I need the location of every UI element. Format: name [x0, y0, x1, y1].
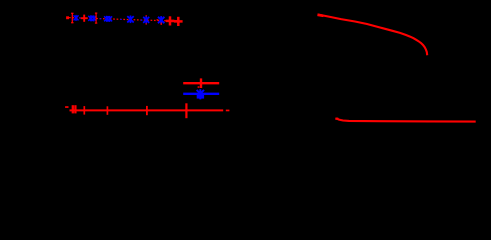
top-left series: red error bar at x=146.2 [145, 15, 147, 24]
right panel: bright start dot of lower branch [335, 118, 338, 120]
bottom-left series: detached left dash [65, 106, 68, 108]
bottom-left series: bold cap bar at x=72.8 [72, 105, 74, 113]
right panel: lower red branch [336, 118, 476, 121]
top-left data series: sparse blue dashes [79, 18, 162, 21]
top-left series: blue star marker at x=76 [74, 15, 79, 21]
top-left series: red error bar at x=72.3 [71, 13, 73, 22]
top-left series: small red marks over star at 161 [157, 20, 162, 25]
right panel: bold start dash of upper curve [318, 15, 324, 16]
bottom-left series: cap at x=107.4 [106, 106, 108, 115]
bottom-left series: main horizontal red line [70, 109, 224, 111]
legend entry 2: blue line [183, 93, 219, 95]
top-left series: bold blue star at x=130.5 [127, 16, 133, 24]
top-left series: bold red plus at x=178.3 [174, 17, 183, 26]
top-left series: thick red join segment [171, 20, 178, 22]
top-left series: bold red plus at x=170 [166, 16, 175, 25]
top-left series: red square marker P0 [66, 16, 69, 19]
bottom-left series: cap at x=84 [83, 106, 85, 115]
top-left series: blue star pair at x=90.8 and 93.8 [88, 15, 96, 21]
bottom-left series: bold cap bar at x=75.4 [74, 105, 76, 113]
legend: small red dot above blue marker [198, 86, 200, 88]
top-left series: blue star at x=146.2 [143, 16, 149, 23]
legend entry 1: red line [183, 82, 219, 84]
legend entry 2: blue star marker [197, 89, 204, 99]
legend entry 1: red plus marker [200, 78, 202, 88]
top-left series: red plus marker at x=84 [81, 15, 88, 22]
top-left series: bold blue star at x=161.2 [158, 16, 164, 24]
top-left series: blue star pair at x=106.6 and 109.6 [104, 16, 112, 22]
bottom-left series: detached right dash [226, 110, 230, 112]
legend entry 2: blue filled square marker [197, 94, 204, 99]
bottom-left series: cap at x=146.9 [146, 106, 148, 115]
top-left data series: red dashed trend line [69, 18, 181, 22]
top-left series: red error bar at x=96 [95, 13, 97, 23]
right panel: upper red curve (fold branch) [318, 14, 428, 55]
bottom-left series: tall cap at x=186.4 [185, 103, 187, 118]
